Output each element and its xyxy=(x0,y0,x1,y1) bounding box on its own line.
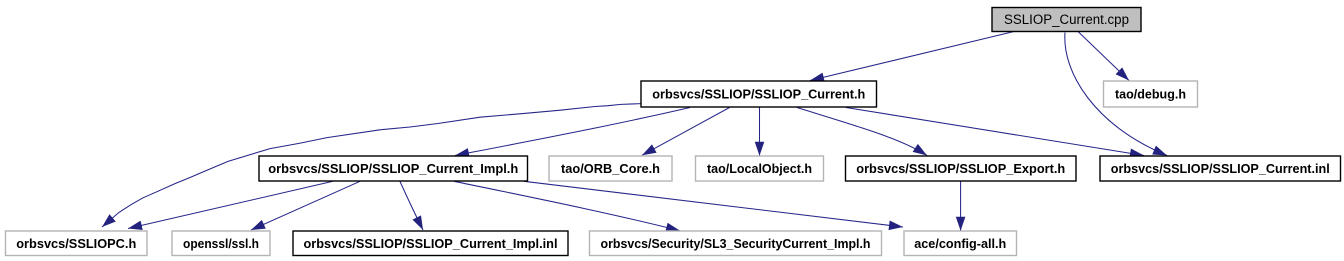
wire SSLIOP_Current.h -> SSLIOP_Current_Impl.h xyxy=(455,108,690,156)
node orbsvcs/Security/SL3_SecurityCurrent_Impl.h xyxy=(590,231,882,256)
wire SSLIOP_Current_Impl.h -> openssl/ssl.h xyxy=(251,181,360,230)
node orbsvcs/SSLIOP/SSLIOP_Current.inl xyxy=(1100,156,1341,181)
node SSLIOP_Current.cpp (root) xyxy=(992,8,1141,32)
wire SSLIOP_Current.cpp -> SSLIOP_Current.inl xyxy=(1065,33,1167,156)
node tao/debug.h xyxy=(1104,81,1198,107)
svg-text:orbsvcs/SSLIOP/SSLIOP_Export.h: orbsvcs/SSLIOP/SSLIOP_Export.h xyxy=(856,161,1065,176)
svg-text:orbsvcs/SSLIOP/SSLIOP_Current.: orbsvcs/SSLIOP/SSLIOP_Current.h xyxy=(652,87,865,102)
svg-text:orbsvcs/SSLIOPC.h: orbsvcs/SSLIOPC.h xyxy=(16,236,136,251)
svg-text:tao/debug.h: tao/debug.h xyxy=(1115,87,1186,102)
wire SSLIOP_Current.h -> SSLIOP_Export.h xyxy=(797,108,927,156)
wire SSLIOP_Current_Impl.h -> ace/config-all.h xyxy=(524,181,903,227)
wire SSLIOP_Current.h -> SSLIOP_Current.inl xyxy=(846,108,1144,156)
node orbsvcs/SSLIOP/SSLIOP_Current_Impl.inl xyxy=(293,231,568,256)
node orbsvcs/SSLIOP/SSLIOP_Current.h xyxy=(641,81,877,107)
svg-text:orbsvcs/SSLIOP/SSLIOP_Current_: orbsvcs/SSLIOP/SSLIOP_Current_Impl.h xyxy=(268,161,518,176)
wire SSLIOP_Current.cpp -> tao/debug.h xyxy=(1078,32,1129,81)
svg-text:orbsvcs/SSLIOP/SSLIOP_Current.: orbsvcs/SSLIOP/SSLIOP_Current.inl xyxy=(1111,161,1330,176)
wire SSLIOP_Current_Impl.h -> SSLIOPC.h xyxy=(128,181,333,228)
wire SSLIOP_Export.h -> ace/config-all.h xyxy=(960,182,962,231)
wire SSLIOP_Current.h -> SSLIOPC.h xyxy=(102,104,641,227)
svg-text:SSLIOP_Current.cpp: SSLIOP_Current.cpp xyxy=(1004,12,1129,27)
wire SSLIOP_Current.h -> tao/ORB_Core.h xyxy=(642,108,730,156)
wire SSLIOP_Current_Impl.h -> SL3_SecurityCurrent_Impl.h xyxy=(454,181,680,231)
svg-text:tao/ORB_Core.h: tao/ORB_Core.h xyxy=(561,161,660,176)
node orbsvcs/SSLIOP/SSLIOP_Export.h xyxy=(846,156,1077,181)
wire SSLIOP_Current_Impl.h -> SSLIOP_Current_Impl.inl xyxy=(400,182,423,231)
node tao/ORB_Core.h xyxy=(549,156,672,181)
svg-text:orbsvcs/Security/SL3_SecurityC: orbsvcs/Security/SL3_SecurityCurrent_Imp… xyxy=(601,236,871,251)
wire SSLIOP_Current.h -> tao/LocalObject.h xyxy=(759,108,761,156)
svg-text:tao/LocalObject.h: tao/LocalObject.h xyxy=(707,161,812,176)
node tao/LocalObject.h xyxy=(696,156,824,181)
node openssl/ssl.h xyxy=(172,231,270,256)
svg-text:orbsvcs/SSLIOP/SSLIOP_Current_: orbsvcs/SSLIOP/SSLIOP_Current_Impl.inl xyxy=(304,236,558,251)
svg-text:ace/config-all.h: ace/config-all.h xyxy=(914,236,1006,251)
wire SSLIOP_Current.cpp -> SSLIOP_Current.h xyxy=(810,32,1014,81)
node ace/config-all.h xyxy=(904,231,1017,256)
svg-text:openssl/ssl.h: openssl/ssl.h xyxy=(183,236,259,251)
node orbsvcs/SSLIOP/SSLIOP_Current_Impl.h xyxy=(259,156,528,181)
node orbsvcs/SSLIOPC.h xyxy=(6,231,148,256)
